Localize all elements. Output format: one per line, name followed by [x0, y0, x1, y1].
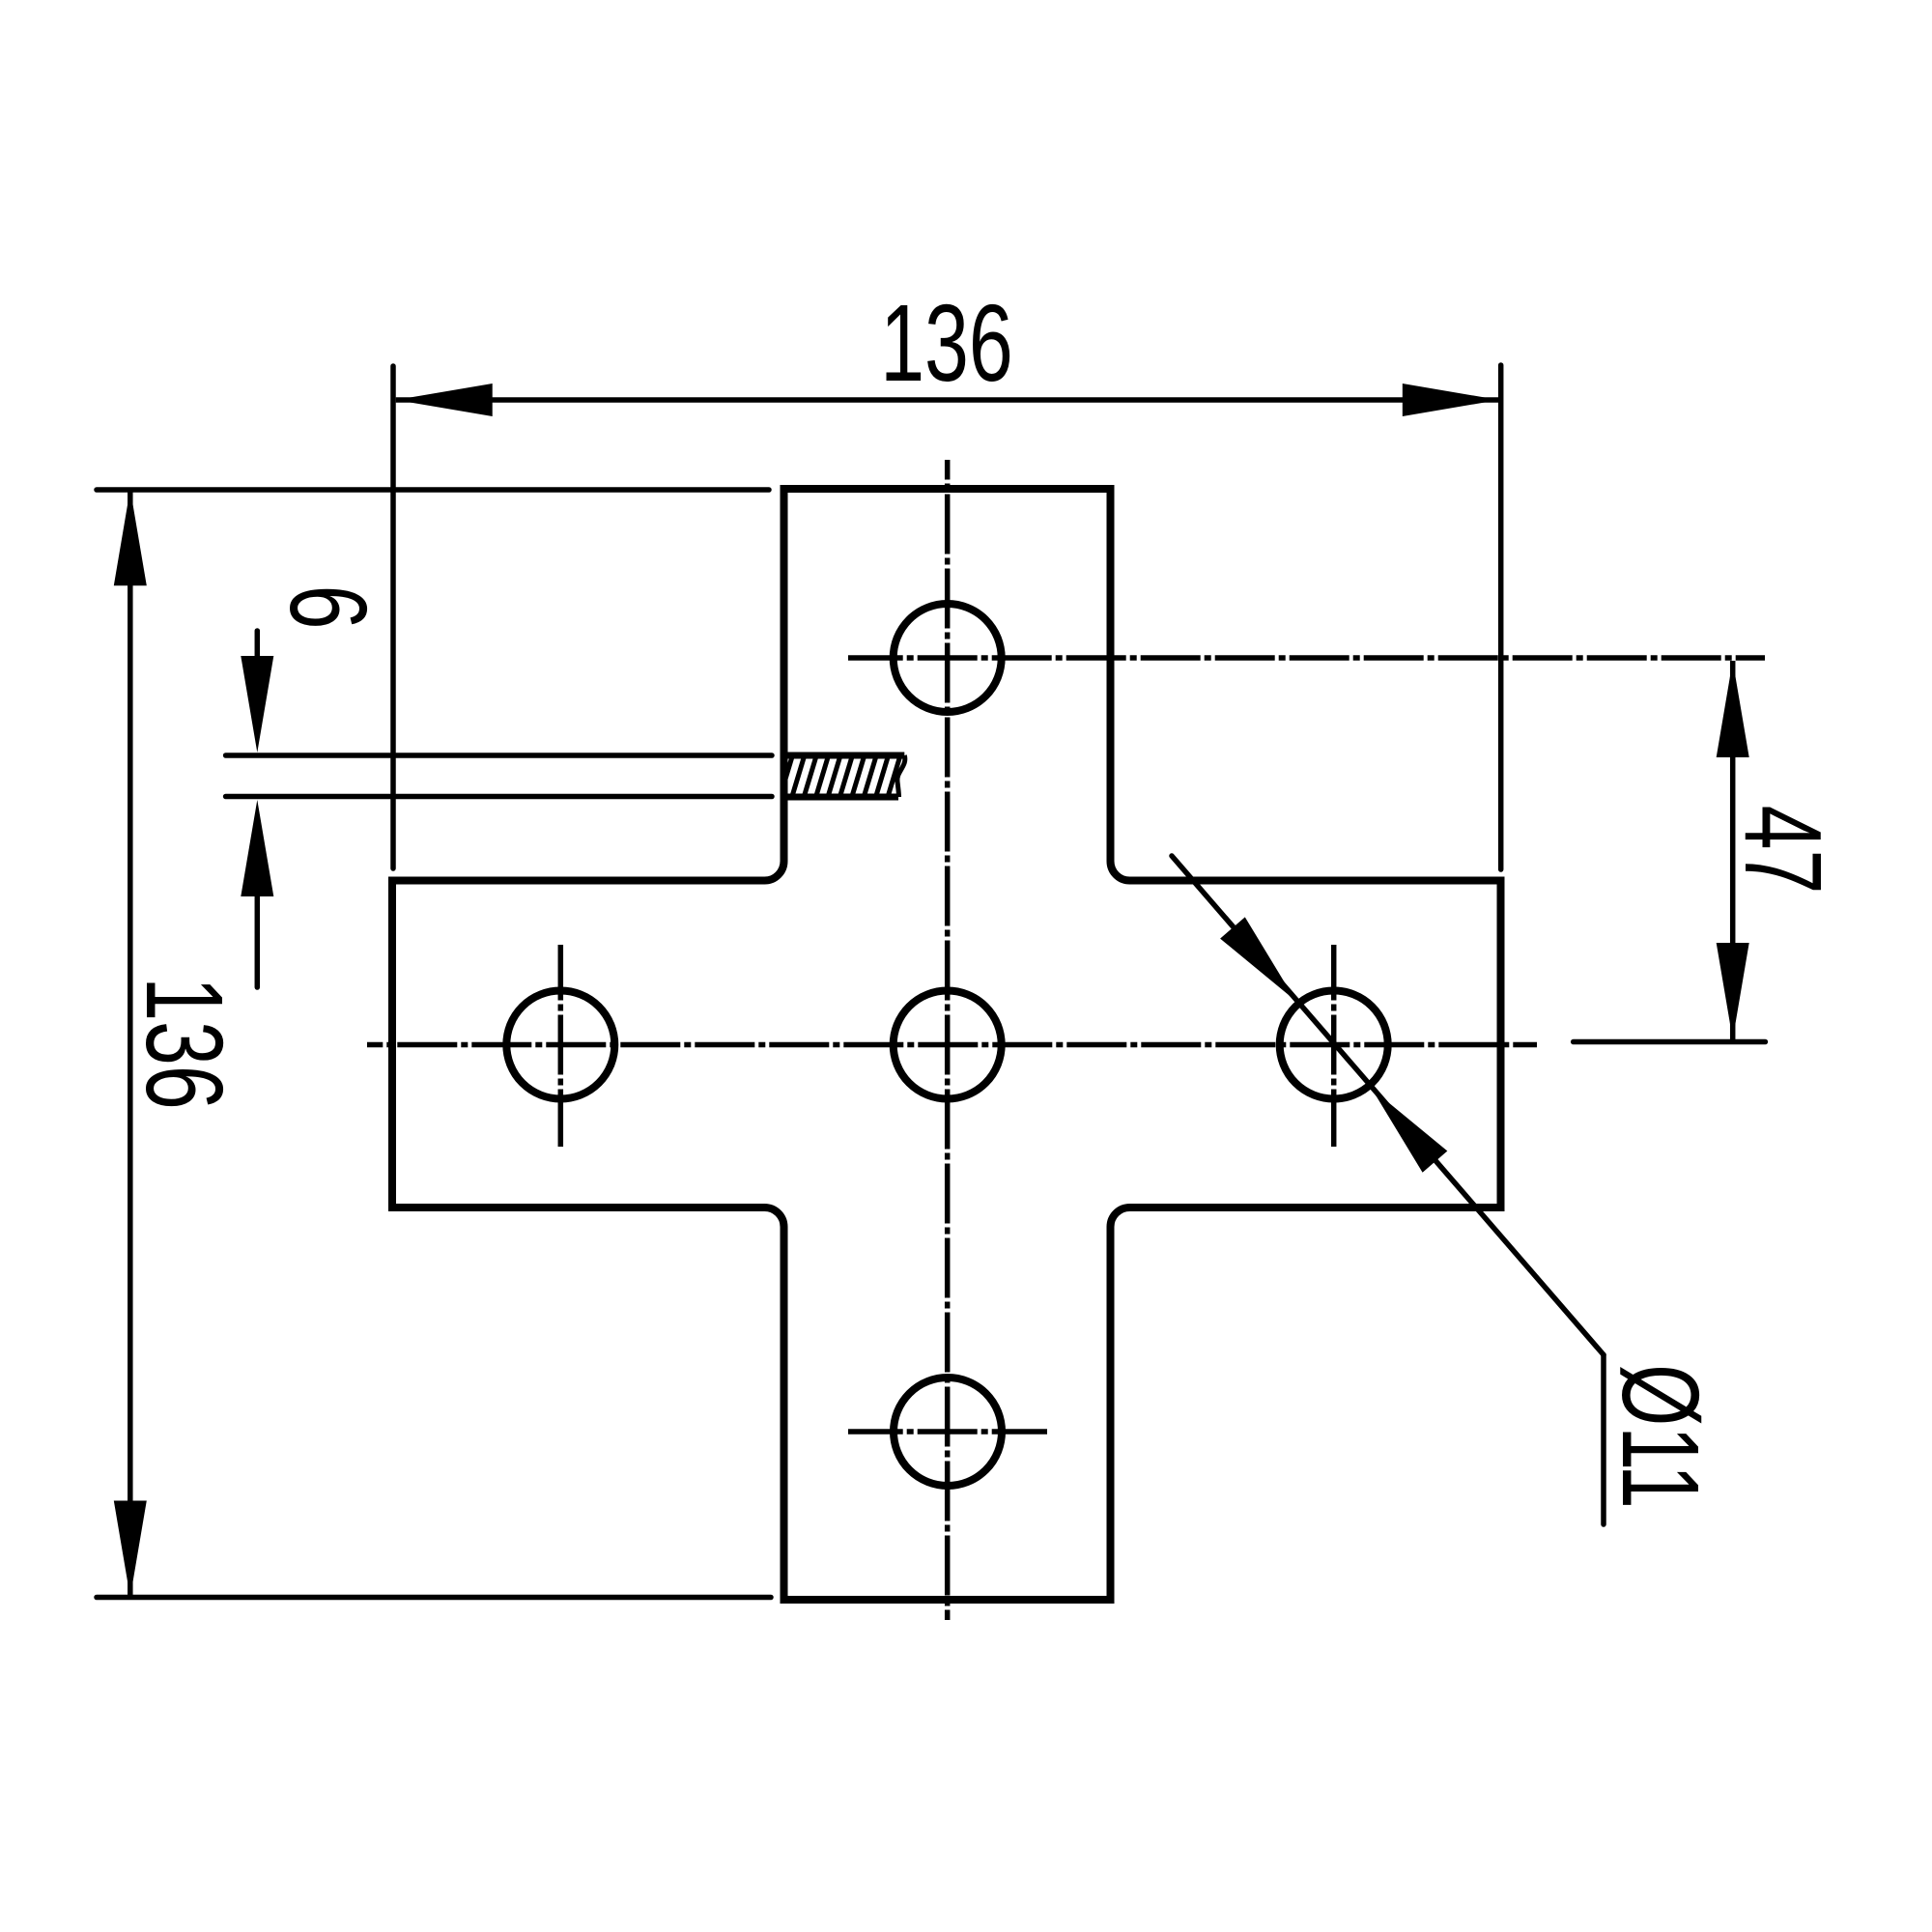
centerline of top hole (extends right as extension for 47 dim) — [848, 655, 1765, 661]
vertical centerline through holes column — [945, 460, 951, 1620]
hole top — [894, 604, 1002, 712]
section bar bottom edge — [784, 794, 899, 801]
dimension 47: top arrowhead — [1717, 661, 1749, 757]
sheet side-view line upper — [226, 753, 772, 758]
vertical centerline tick of left hole — [558, 945, 564, 1147]
dimension 6: lower leader — [255, 879, 261, 987]
centerline of bottom hole — [848, 1429, 1047, 1435]
dimension 136 top: right arrowhead — [1403, 384, 1499, 416]
hole right — [1280, 991, 1388, 1099]
hole bottom — [894, 1378, 1002, 1486]
dimension 136 left: extension line top — [97, 487, 769, 493]
hole center — [894, 991, 1002, 1099]
dimension 47: dimension line — [1730, 661, 1736, 1039]
svg-text:Ø11: Ø11 — [1600, 1364, 1722, 1509]
dimension 136 left: bottom arrowhead — [114, 1501, 147, 1598]
dimension 6: lower arrowhead — [241, 800, 273, 896]
dimension 136 top: left arrowhead — [396, 384, 493, 416]
dimension 136 top: extension line right — [1498, 365, 1504, 869]
dimension 136 left: dimension line — [128, 489, 133, 1598]
dimension 136 top: extension line left — [390, 366, 396, 868]
leader diameter 11: vertical tail — [1601, 1355, 1606, 1525]
svg-text:6: 6 — [268, 585, 390, 630]
section bar break edge — [897, 755, 905, 797]
dimension 47: bottom arrowhead — [1717, 943, 1749, 1039]
section bar hatching — [768, 755, 924, 797]
leader diameter 11: diagonal line — [1172, 856, 1604, 1355]
hole left — [506, 991, 614, 1099]
section bar (hatched) top edge — [784, 753, 905, 759]
vertical centerline tick of right hole — [1331, 945, 1337, 1147]
svg-text:47: 47 — [1722, 806, 1845, 895]
leader diameter 11: upper arrowhead — [1220, 917, 1295, 1001]
dimension 47: bottom extension line — [1574, 1039, 1766, 1045]
dimension 6: upper arrowhead — [241, 656, 273, 753]
dimension 136 top: dimension line — [396, 397, 1499, 403]
dimension 136 left: top arrowhead — [114, 489, 147, 585]
cross-shaped plate outline — [392, 489, 1501, 1600]
svg-text:136: 136 — [880, 281, 1013, 404]
horizontal centerline through middle row — [367, 1042, 1537, 1048]
sheet side-view line lower — [226, 794, 772, 800]
svg-text:136: 136 — [124, 977, 246, 1110]
dimension 6: upper leader — [255, 631, 261, 676]
dimension 136 left: extension line bottom — [97, 1595, 771, 1601]
leader diameter 11: lower arrowhead — [1372, 1089, 1447, 1173]
